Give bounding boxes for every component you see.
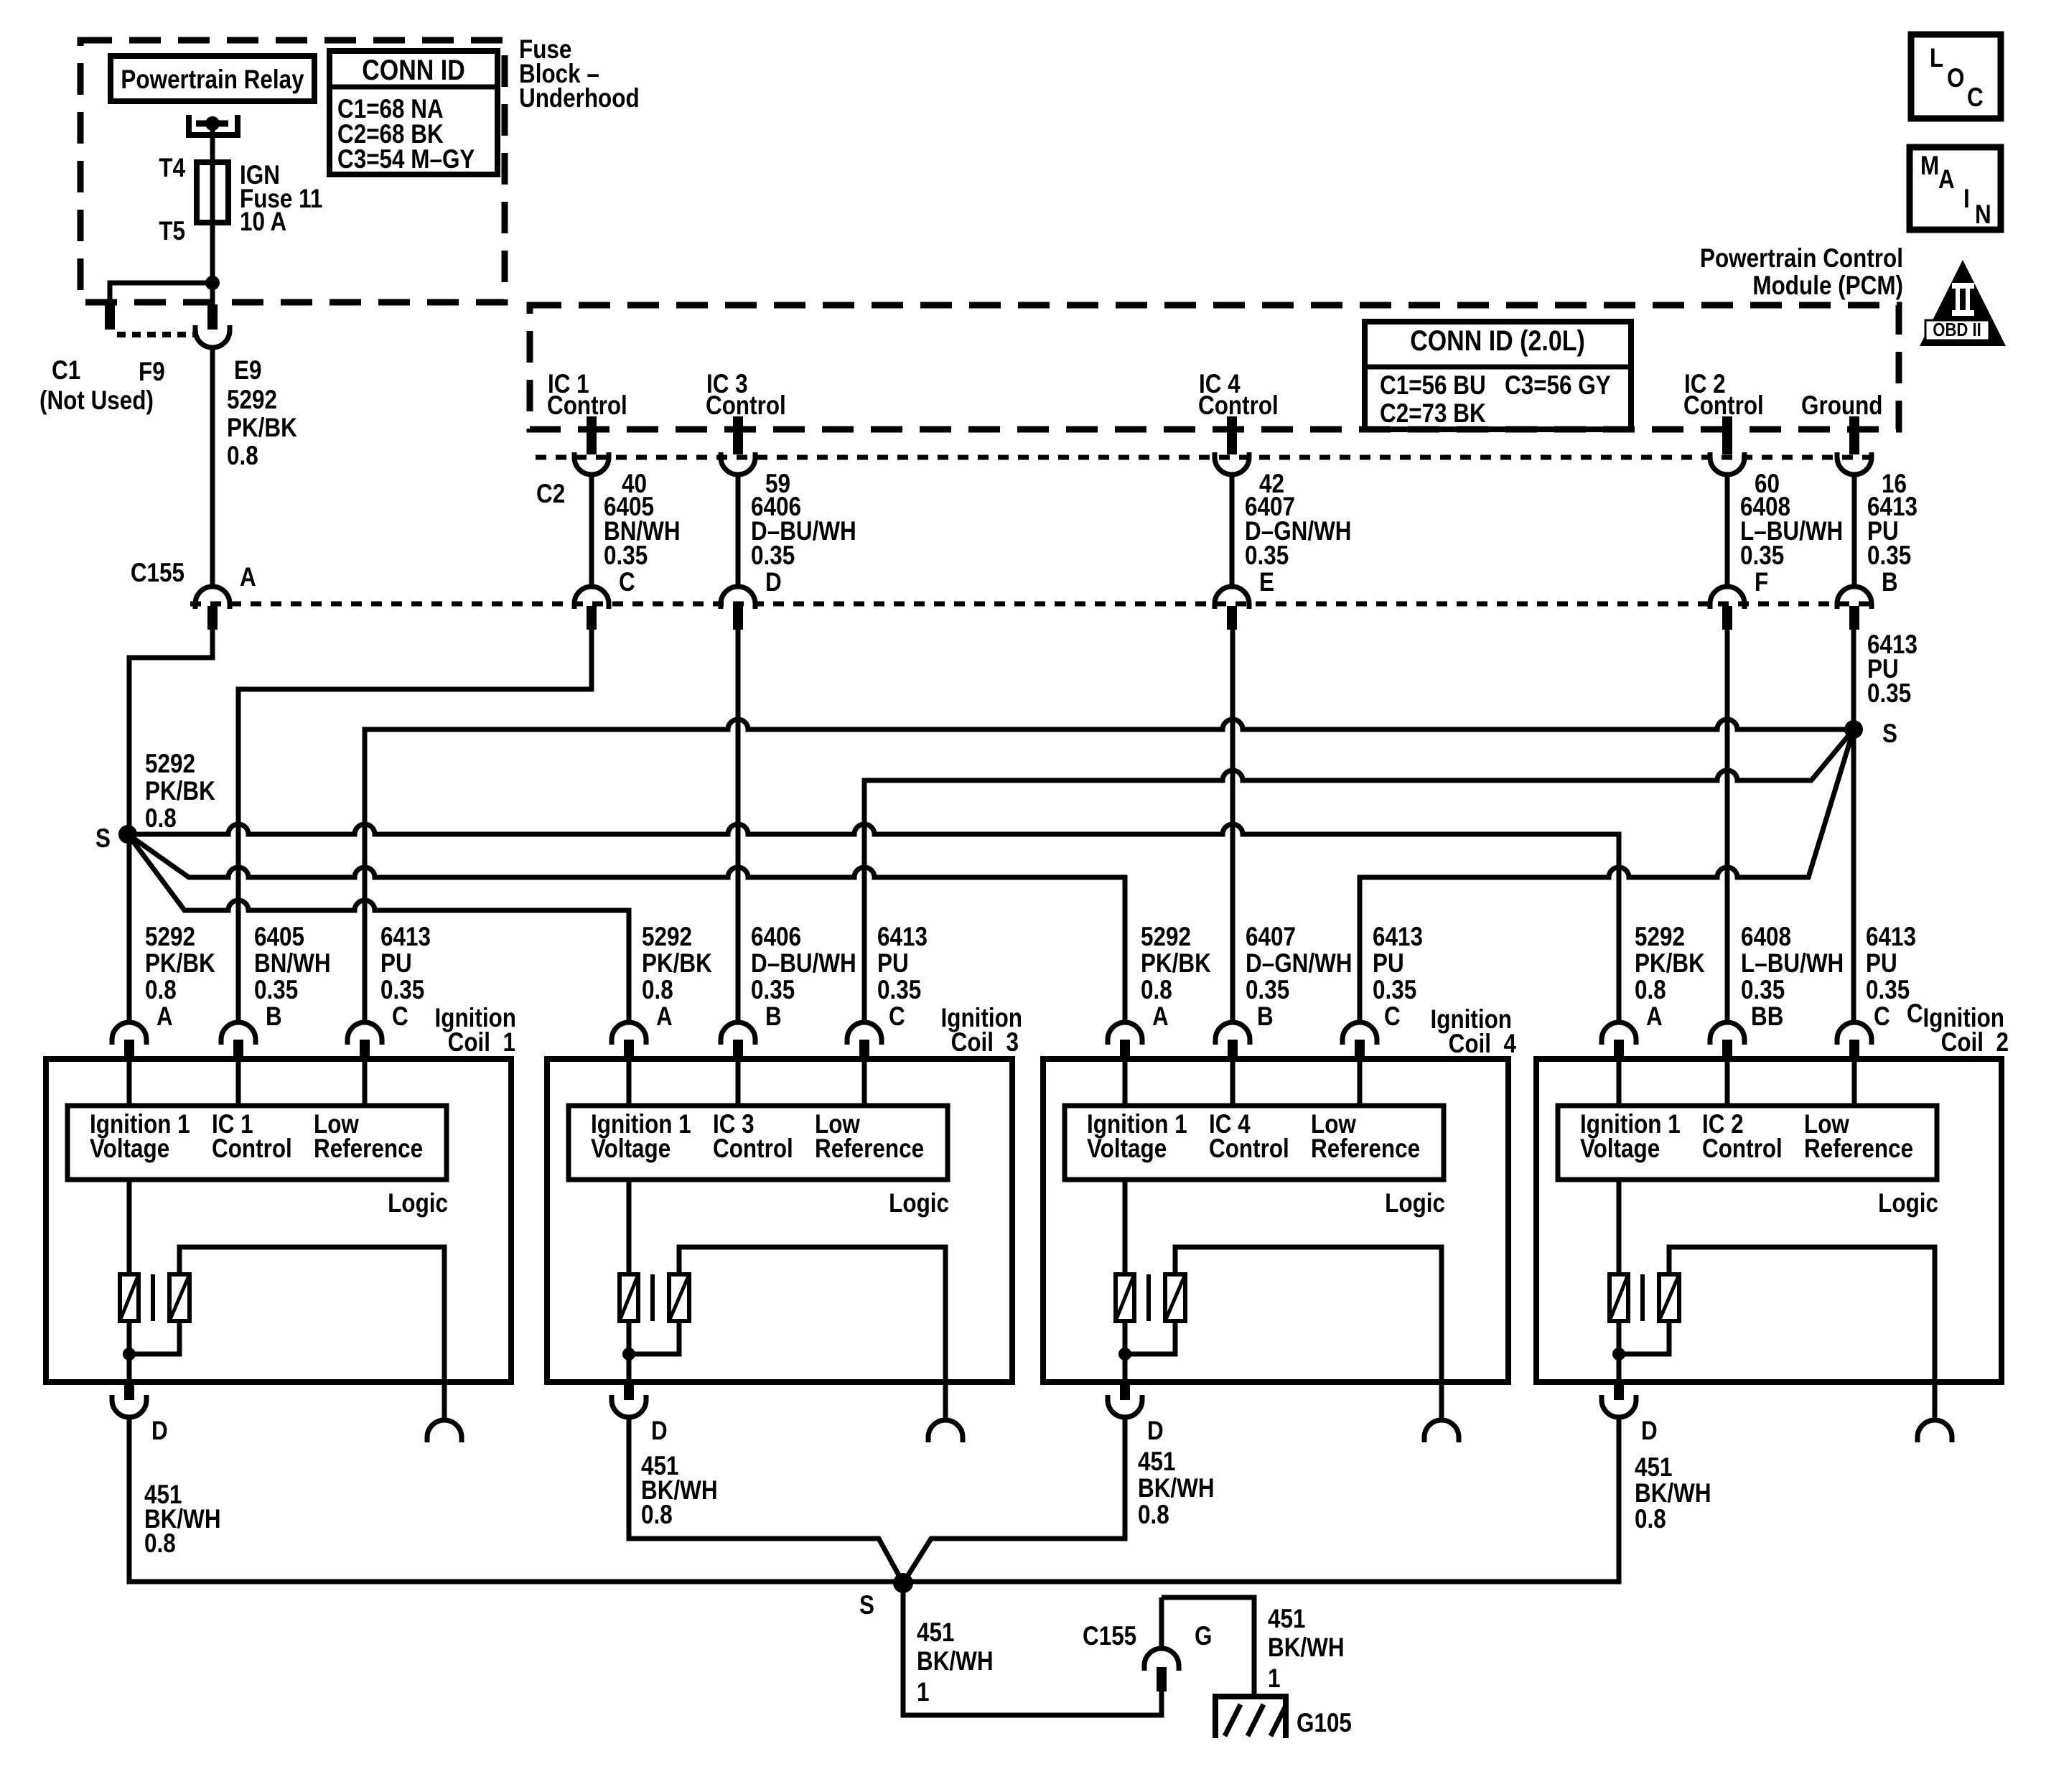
- wire 5292 bus to coil 3: [128, 834, 629, 1022]
- svg-text:0.8: 0.8: [144, 1529, 176, 1559]
- svg-text:N: N: [1975, 200, 1991, 230]
- C155 connector row dotted line: [190, 602, 1872, 607]
- splice S right dot: [1844, 720, 1863, 739]
- svg-text:T5: T5: [159, 217, 185, 246]
- label IGN Fuse 11 10 A: [240, 161, 322, 237]
- svg-text:D: D: [1147, 1417, 1164, 1446]
- svg-text:BB: BB: [1751, 1002, 1783, 1032]
- svg-text:M: M: [1920, 151, 1939, 181]
- wire 6407 to coil 4 B: [1230, 630, 1235, 1022]
- svg-text:I: I: [1963, 185, 1970, 214]
- svg-text:A: A: [1646, 1002, 1663, 1032]
- svg-text:0.35: 0.35: [751, 541, 795, 571]
- svg-text:C155: C155: [131, 559, 184, 588]
- svg-text:451: 451: [1268, 1605, 1305, 1634]
- svg-text:C2=73 BK: C2=73 BK: [1380, 399, 1486, 429]
- labels coil4 pin C wire: [1373, 923, 1423, 1032]
- labels coil2 pin BB wire: [1741, 923, 1844, 1032]
- svg-text:0.35: 0.35: [1246, 976, 1289, 1005]
- svg-text:5292: 5292: [642, 923, 692, 952]
- label pin 42 6407 D-GN/WH 0.35 E: [1245, 470, 1351, 597]
- wire branch to F9: [110, 283, 212, 304]
- connector F9 tick: [105, 304, 115, 330]
- powertrain relay box: [111, 56, 314, 101]
- svg-text:D–GN/WH: D–GN/WH: [1246, 949, 1352, 979]
- svg-text:A: A: [1152, 1002, 1169, 1032]
- svg-text:0.35: 0.35: [1373, 976, 1416, 1005]
- connector E9: [195, 304, 230, 347]
- svg-text:0.8: 0.8: [1138, 1501, 1169, 1530]
- wire 6405 to coil 1 B: [238, 630, 592, 1022]
- svg-text:1: 1: [917, 1678, 929, 1707]
- label Ignition Coil 4: [1430, 1005, 1516, 1059]
- label Ignition Coil 2: [1923, 1004, 2009, 1058]
- label C1 not used: [39, 356, 154, 416]
- PCM label: [1700, 244, 1903, 301]
- label IC 3 Control: [706, 370, 786, 421]
- C155 connectors A C D E F B: [195, 587, 1872, 630]
- svg-text:Control: Control: [1702, 1134, 1783, 1164]
- labels coil2 pin A wire: [1635, 923, 1705, 1032]
- svg-text:Reference: Reference: [314, 1134, 423, 1164]
- svg-text:Logic: Logic: [889, 1189, 949, 1218]
- labels coil3 pin B wire: [751, 923, 856, 1032]
- svg-text:0.8: 0.8: [145, 804, 177, 834]
- svg-text:Coil 4: Coil 4: [1449, 1030, 1516, 1059]
- svg-text:C2: C2: [536, 480, 565, 509]
- wire 5292 bus to coil 2: [128, 824, 1619, 1022]
- svg-text:Control: Control: [212, 1134, 292, 1164]
- label T5: [159, 217, 185, 246]
- wire 451 to ground: [1162, 1597, 1254, 1695]
- svg-text:A: A: [240, 563, 256, 592]
- label 5292 PK/BK 0.8 (above S): [145, 750, 215, 834]
- wire 6413 coil 3 C bus: [864, 729, 1854, 1022]
- splice S left dot: [118, 825, 137, 844]
- wire 5292 E9 to C155 A: [210, 347, 215, 587]
- svg-text:0.35: 0.35: [751, 976, 795, 1005]
- svg-text:PK/BK: PK/BK: [145, 777, 215, 806]
- ignition coil 3 box: [547, 1022, 1012, 1446]
- svg-text:D: D: [1641, 1417, 1658, 1446]
- fuse IGN Fuse 11 10A: [197, 162, 228, 223]
- labels coil3 pin A wire: [642, 923, 712, 1032]
- svg-text:BK/WH: BK/WH: [1268, 1633, 1345, 1663]
- connector C155 G: [1144, 1597, 1179, 1691]
- conn id table (fuse block): [330, 51, 498, 174]
- svg-text:Logic: Logic: [388, 1189, 448, 1218]
- label pin 40 6405 BN/WH 0.35 C: [604, 470, 681, 597]
- wire 6413 PCM to coil 2 C: [1851, 630, 1856, 1022]
- label S right: [1882, 719, 1897, 749]
- svg-text:(Not Used): (Not Used): [39, 386, 154, 416]
- svg-text:0.35: 0.35: [604, 541, 648, 571]
- svg-text:0.35: 0.35: [380, 976, 424, 1005]
- svg-text:451: 451: [917, 1618, 954, 1648]
- svg-text:PU: PU: [1373, 949, 1404, 979]
- svg-text:C1=56 BU: C1=56 BU: [1380, 371, 1486, 401]
- svg-text:BN/WH: BN/WH: [254, 949, 331, 979]
- svg-text:5292: 5292: [1635, 923, 1685, 952]
- svg-text:Module (PCM): Module (PCM): [1752, 271, 1903, 301]
- svg-text:1: 1: [1268, 1664, 1280, 1694]
- LOC box: [1911, 34, 2001, 118]
- svg-text:Control: Control: [1198, 391, 1279, 421]
- label coil4 D wire 451 BK/WH 0.8: [1138, 1447, 1215, 1530]
- label extra C before coil2 title: [1907, 999, 1923, 1029]
- label pin 60 6408 L-BU/WH 0.35 F: [1740, 470, 1843, 597]
- svg-text:A: A: [1938, 165, 1955, 195]
- svg-text:C: C: [1967, 83, 1984, 113]
- label pin 16 6413 PU 0.35 B: [1867, 470, 1917, 597]
- svg-text:S: S: [1882, 719, 1897, 749]
- svg-text:6413: 6413: [1866, 923, 1916, 952]
- svg-text:Coil 3: Coil 3: [951, 1028, 1019, 1058]
- connector C1 dotted line: [117, 332, 195, 337]
- labels coil4 pin A wire: [1141, 923, 1211, 1032]
- svg-text:Coil 1: Coil 1: [448, 1028, 515, 1058]
- svg-text:PK/BK: PK/BK: [1141, 949, 1211, 979]
- svg-text:D: D: [765, 568, 782, 597]
- svg-text:5292: 5292: [227, 386, 277, 415]
- relay contact symbol: [189, 115, 238, 135]
- svg-text:D: D: [151, 1417, 168, 1446]
- svg-text:A: A: [157, 1002, 173, 1032]
- svg-text:O: O: [1947, 64, 1964, 93]
- svg-text:0.35: 0.35: [1740, 541, 1784, 571]
- svg-text:Powertrain Relay: Powertrain Relay: [121, 65, 304, 95]
- svg-text:B: B: [266, 1002, 282, 1032]
- svg-text:F: F: [1755, 568, 1768, 597]
- svg-text:CONN ID (2.0L): CONN ID (2.0L): [1410, 324, 1585, 356]
- label C2: [536, 480, 565, 509]
- svg-text:0.8: 0.8: [1635, 1505, 1666, 1534]
- svg-text:0.8: 0.8: [1635, 976, 1666, 1005]
- ground G105 symbol: [1213, 1697, 1289, 1738]
- label E9 5292 PK/BK 0.8: [227, 356, 297, 471]
- label pin 59 6406 D-BU/WH 0.35 D: [751, 470, 856, 597]
- svg-text:6413: 6413: [877, 923, 928, 952]
- labels coil1 pin A wire: [145, 923, 215, 1032]
- svg-text:C: C: [1384, 1002, 1401, 1032]
- svg-text:L: L: [1930, 44, 1943, 73]
- svg-text:Voltage: Voltage: [1580, 1134, 1660, 1164]
- svg-text:OBD II: OBD II: [1933, 319, 1981, 340]
- junction dot in fuse block: [205, 276, 220, 290]
- svg-text:BK/WH: BK/WH: [1138, 1474, 1215, 1503]
- label S left: [95, 824, 111, 854]
- labels coil1 pin C wire: [380, 923, 431, 1032]
- svg-text:Voltage: Voltage: [591, 1134, 671, 1164]
- wire 451 coil4 feeder: [903, 1417, 1125, 1583]
- labels coil1 pin B wire: [254, 923, 331, 1032]
- svg-text:0.35: 0.35: [254, 976, 298, 1005]
- svg-text:L–BU/WH: L–BU/WH: [1741, 949, 1844, 979]
- svg-text:C3=54 M–GY: C3=54 M–GY: [337, 145, 475, 174]
- wire 6413 coil 4 C bus: [1360, 729, 1854, 1022]
- svg-text:S: S: [95, 824, 111, 854]
- label 451 BK/WH 1 (left): [917, 1618, 994, 1707]
- svg-text:0.8: 0.8: [145, 976, 177, 1005]
- svg-text:E9: E9: [234, 356, 261, 386]
- label C155 G: [1083, 1622, 1212, 1651]
- svg-text:0.35: 0.35: [877, 976, 921, 1005]
- labels coil4 pin B wire: [1246, 923, 1352, 1032]
- svg-text:0.8: 0.8: [642, 976, 673, 1005]
- label Ground: [1801, 391, 1883, 421]
- svg-text:G105: G105: [1297, 1709, 1352, 1738]
- svg-text:D–BU/WH: D–BU/WH: [751, 949, 856, 979]
- PCM C2 connector row dotted line: [536, 455, 1872, 460]
- svg-text:PU: PU: [877, 949, 909, 979]
- svg-text:Logic: Logic: [1385, 1189, 1445, 1218]
- label C155 A: [131, 559, 256, 592]
- label IC 4 Control: [1198, 370, 1279, 421]
- wire 451 to C155 G: [903, 1583, 1162, 1715]
- wire 451 coil3 feeder: [629, 1417, 903, 1583]
- svg-text:PU: PU: [380, 949, 412, 979]
- svg-text:Reference: Reference: [1311, 1134, 1420, 1164]
- wire 5292 below C155: [129, 630, 212, 1022]
- svg-text:0.35: 0.35: [1741, 976, 1785, 1005]
- svg-text:Control: Control: [1209, 1134, 1289, 1164]
- wire 6413 coil 1 C bus: [365, 719, 1854, 1022]
- svg-text:C: C: [1874, 1002, 1890, 1032]
- fuse block dashed enclosure: [80, 40, 505, 302]
- svg-text:BK/WH: BK/WH: [1635, 1479, 1711, 1508]
- svg-text:451: 451: [1635, 1453, 1672, 1483]
- wire 451 coil1-coil2 bus: [129, 1417, 1619, 1582]
- svg-text:G: G: [1195, 1622, 1212, 1651]
- svg-text:10 A: 10 A: [240, 207, 286, 237]
- fuse block label: [519, 35, 640, 113]
- svg-text:6405: 6405: [254, 923, 304, 952]
- svg-text:Control: Control: [713, 1134, 793, 1164]
- conn id table (PCM 2.0L): [1365, 322, 1631, 429]
- svg-text:6413: 6413: [380, 923, 431, 952]
- svg-text:Coil 2: Coil 2: [1941, 1028, 2009, 1058]
- ignition coil 2 box: [1536, 1022, 2001, 1446]
- wire relay to fuse: [210, 126, 215, 165]
- svg-text:6408: 6408: [1741, 923, 1791, 952]
- svg-text:6413: 6413: [1373, 923, 1423, 952]
- svg-text:C: C: [1907, 999, 1923, 1029]
- svg-text:Voltage: Voltage: [90, 1134, 169, 1164]
- svg-text:Control: Control: [547, 391, 627, 421]
- svg-text:C1: C1: [52, 356, 80, 386]
- svg-text:C3=56 GY: C3=56 GY: [1505, 371, 1611, 401]
- svg-text:E: E: [1259, 568, 1274, 597]
- svg-text:5292: 5292: [145, 923, 195, 952]
- svg-text:Voltage: Voltage: [1087, 1134, 1167, 1164]
- svg-text:Reference: Reference: [1804, 1134, 1913, 1164]
- svg-text:Control: Control: [1683, 391, 1764, 421]
- wire 5292 bus to coil 4: [128, 834, 1125, 1022]
- svg-text:Reference: Reference: [815, 1134, 924, 1164]
- svg-text:0.35: 0.35: [1867, 679, 1911, 709]
- svg-text:T4: T4: [159, 154, 185, 183]
- OBD II triangle: [1920, 260, 2006, 346]
- svg-text:PK/BK: PK/BK: [1635, 949, 1705, 979]
- svg-text:PU: PU: [1866, 949, 1897, 979]
- label F9: [139, 358, 165, 387]
- svg-text:B: B: [765, 1002, 782, 1032]
- label coil3 D wire 451 BK/WH 0.8: [641, 1452, 718, 1530]
- svg-text:Powertrain Control: Powertrain Control: [1700, 244, 1903, 274]
- svg-text:PK/BK: PK/BK: [145, 949, 215, 979]
- label 6413 PU 0.35 (right): [1867, 630, 1917, 709]
- label 451 BK/WH 1 (right): [1268, 1605, 1345, 1694]
- label Ignition Coil 3: [940, 1004, 1022, 1058]
- splice S bottom dot: [893, 1573, 913, 1593]
- wire 6406 to coil 3 B: [736, 630, 741, 1022]
- svg-text:0.8: 0.8: [641, 1501, 673, 1530]
- svg-text:5292: 5292: [145, 750, 195, 779]
- svg-text:Ground: Ground: [1801, 391, 1883, 421]
- svg-text:Control: Control: [706, 391, 786, 421]
- svg-text:A: A: [656, 1002, 673, 1032]
- wire junction to E9: [210, 283, 215, 304]
- svg-text:C155: C155: [1083, 1622, 1136, 1651]
- svg-text:C: C: [619, 568, 635, 597]
- svg-text:0.8: 0.8: [227, 442, 258, 471]
- MAIN box: [1910, 147, 2001, 230]
- svg-text:B: B: [1882, 568, 1898, 597]
- svg-text:CONN ID: CONN ID: [362, 53, 465, 85]
- svg-text:BK/WH: BK/WH: [917, 1647, 994, 1676]
- svg-text:0.35: 0.35: [1866, 976, 1910, 1005]
- svg-text:PK/BK: PK/BK: [227, 414, 297, 443]
- svg-text:5292: 5292: [1141, 923, 1191, 952]
- label G105: [1297, 1709, 1352, 1738]
- svg-text:6407: 6407: [1246, 923, 1296, 952]
- PCM dashed enclosure: [530, 305, 1899, 429]
- label IC 1 Control: [547, 370, 627, 421]
- label Ignition Coil 1: [434, 1004, 516, 1058]
- label coil2 D wire 451 BK/WH 0.8: [1635, 1453, 1711, 1534]
- wires PCM to C155: [592, 475, 1854, 587]
- svg-text:6406: 6406: [751, 923, 801, 952]
- svg-text:PK/BK: PK/BK: [642, 949, 712, 979]
- svg-text:F9: F9: [139, 358, 165, 387]
- svg-text:Logic: Logic: [1878, 1189, 1938, 1218]
- svg-text:C: C: [392, 1002, 408, 1032]
- svg-text:S: S: [859, 1591, 874, 1620]
- label IC 2 Control: [1683, 370, 1764, 421]
- svg-text:B: B: [1257, 1002, 1274, 1032]
- label coil1 D wire 451 BK/WH 0.8: [144, 1480, 221, 1559]
- svg-text:0.35: 0.35: [1245, 541, 1289, 571]
- svg-text:C: C: [889, 1002, 905, 1032]
- ignition coil 1 box: [46, 1022, 511, 1446]
- labels coil2 pin C wire: [1866, 923, 1916, 1032]
- wire 6408 to coil 2 BB: [1725, 630, 1730, 1022]
- ignition coil 4 box: [1043, 1022, 1508, 1446]
- label S bottom: [859, 1591, 874, 1620]
- svg-text:451: 451: [1138, 1447, 1175, 1477]
- svg-text:0.35: 0.35: [1867, 541, 1911, 571]
- labels coil3 pin C wire: [877, 923, 928, 1032]
- wire fuse to junction: [210, 223, 215, 283]
- PCM pin connectors at C2 row: [574, 416, 1872, 475]
- label T4: [159, 154, 185, 183]
- svg-text:D: D: [651, 1417, 668, 1446]
- svg-text:Underhood: Underhood: [519, 84, 640, 113]
- svg-text:0.8: 0.8: [1141, 976, 1172, 1005]
